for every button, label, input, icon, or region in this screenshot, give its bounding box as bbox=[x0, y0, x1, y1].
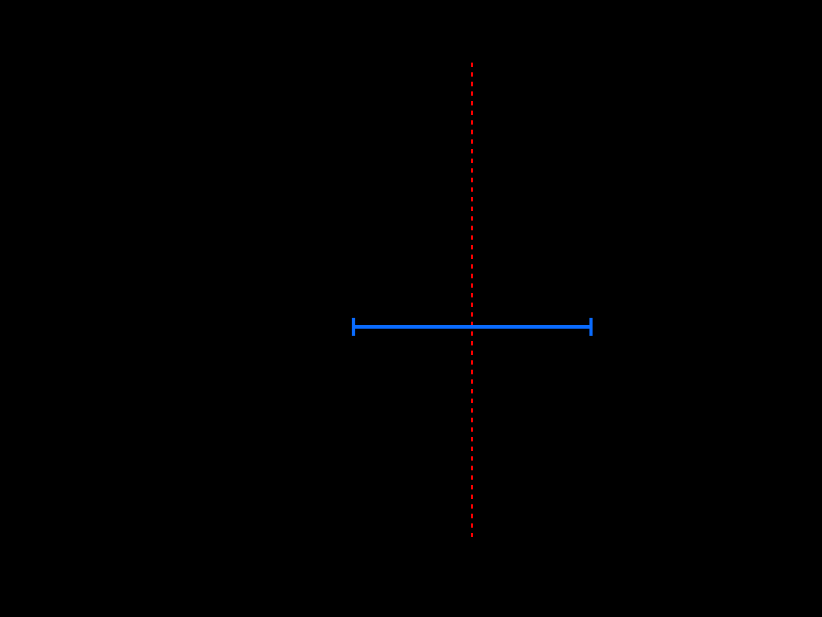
left cap bbox=[352, 318, 355, 336]
blue horizontal interval bar bbox=[354, 325, 592, 329]
right cap bbox=[589, 318, 592, 336]
red dashed vertical reference line bbox=[471, 63, 473, 537]
